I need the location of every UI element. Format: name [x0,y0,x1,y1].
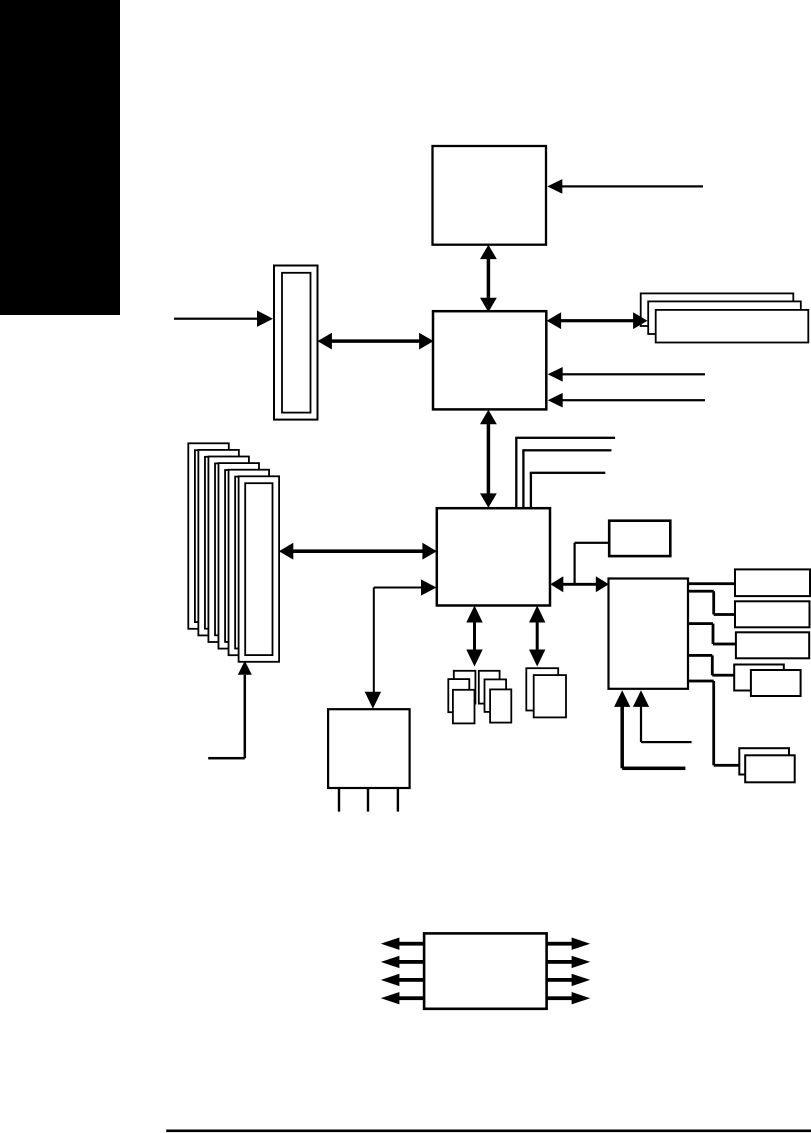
wire: super I/O to bottom connector pair (long stepped) [688,680,739,767]
connector box D back [734,665,784,691]
audio codec block [424,933,546,1008]
wire: codec right arrow 2 [547,956,591,968]
wire: super I/O to box D (stepped) [688,654,734,677]
wire: codec left arrow 2 [381,956,424,968]
wire: bent line 2 into south bridge top [522,449,611,508]
BIOS pin 2 [367,788,369,812]
wire: input line 1 into north bridge right [548,367,705,382]
wire: south bridge to super I/O LPC double arrow [550,576,609,592]
wire: AGP to north bridge double arrow [318,333,434,350]
wire: north bridge to south bridge link double arrow [480,410,497,508]
super I/O block [609,579,689,689]
wire: bent line 1 into south bridge top [515,437,615,508]
wire: CPU to north bridge FSB double arrow [480,245,497,312]
AGP slot connector (double rectangle) [274,266,318,420]
bottom connector pair back [739,748,789,774]
wire: super I/O to box C (stepped) [688,622,736,645]
PCI slot connectors (stack of 6 double rectangles) [188,443,279,662]
wire: north bridge to DIMM memory bus double arrow [547,312,648,329]
BIOS chip block [328,709,410,788]
connector box D front [751,670,801,696]
south bridge block [437,508,550,605]
wire: codec left arrow 3 [381,974,424,986]
CPU block [433,146,547,245]
wire: super I/O to box B (stepped) [688,590,735,616]
wire: clock line into CPU right side [547,179,703,194]
wire: codec right arrow 3 [547,974,591,986]
wire: bent line 3 into south bridge top [530,472,606,508]
wire: codec left arrow 1 [381,938,424,950]
wire: super I/O to box A [688,582,735,585]
north bridge block [433,311,546,409]
wire: input line 2 into north bridge right [548,393,705,408]
USB port cluster 3 (two boxes) [526,668,566,717]
serial port box A [735,569,810,596]
wire: up arrow 2 into super I/O bottom [633,690,692,743]
serial port box C [736,632,809,658]
wire: up arrow into PCI slot stack from below [208,661,252,760]
bottom connector pair front [745,755,795,782]
DDR DIMM slot 3 (front) [656,310,809,343]
DDR DIMM slot 1 (back) [641,293,794,326]
USB port cluster 1 (three small boxes) [448,671,475,724]
BIOS pin 1 [338,788,340,812]
wire: L-connector from LAN box to SIO arrow [574,542,610,585]
BIOS pin 3 [397,788,399,812]
wire: USB double arrow 1 below south bridge [466,606,482,667]
serial port box B [735,601,810,627]
wire: codec right arrow 4 [547,992,591,1004]
wire: branch into south bridge left and down to BIOS [365,579,437,708]
wire: codec left arrow 4 [381,992,424,1004]
DDR DIMM slot 2 (middle) [648,301,801,334]
USB port cluster 2 (three small boxes) [479,671,512,723]
black chapter tab [0,0,120,315]
wire: USB double arrow 2 below south bridge [529,606,545,667]
wire: arrow into AGP slot from left [174,311,273,327]
LAN block (small box) [609,521,670,556]
wire: up arrow 1 into super I/O bottom [614,690,685,770]
wire: codec right arrow 1 [547,938,591,950]
wire: PCI bus double arrow to south bridge [279,543,437,560]
footer rule [166,1130,811,1133]
